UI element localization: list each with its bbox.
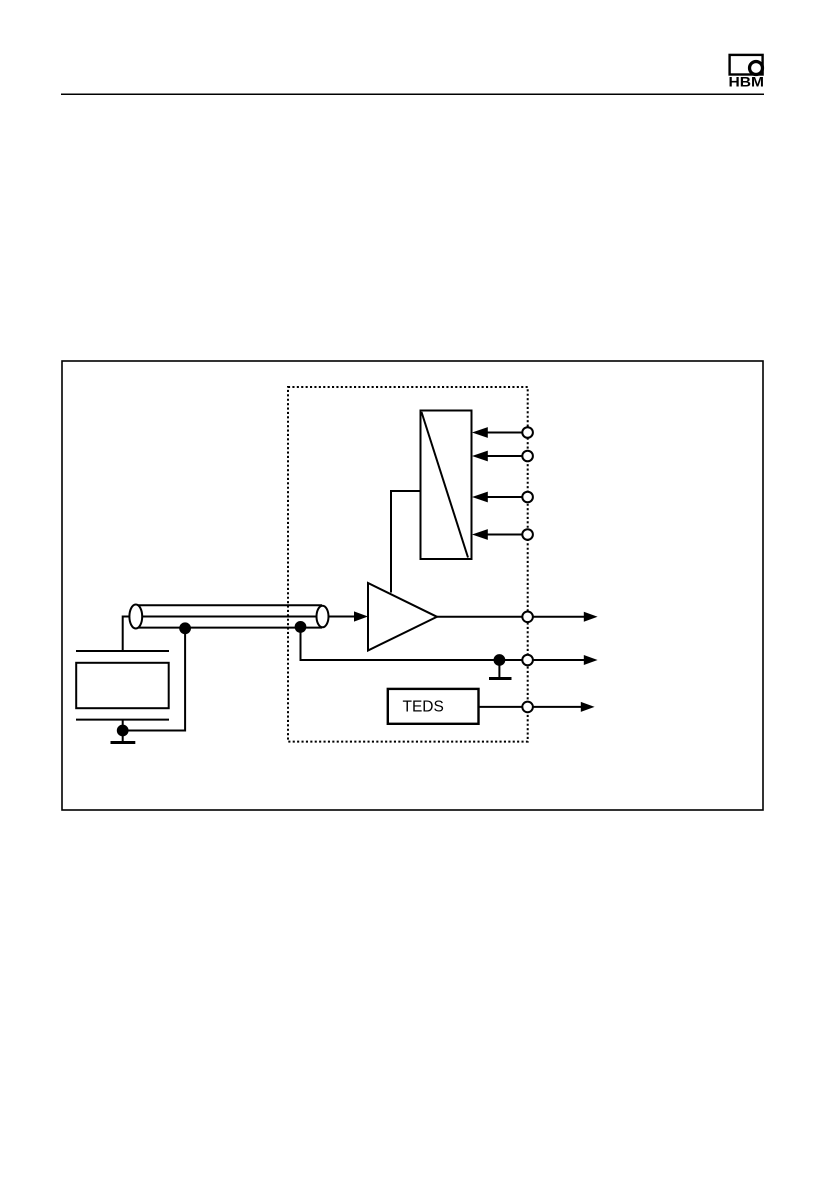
shielded cable (cylinder) [129,605,328,629]
wire: cable shield to amplifier zero line [301,627,523,660]
input arrow into amplifier A1 [329,611,369,621]
junction: shield tap at cable (left) [179,622,191,634]
control input arrow 1 (into U1) [472,427,523,438]
transducer (piezoelectric sensor) [76,651,169,743]
wire: cable core to transducer [123,617,130,652]
TEDS module [388,689,479,724]
connector pin 5 (signal output) [522,612,533,623]
junction: internal ground tap [494,654,506,666]
svg-text:TEDS: TEDS [403,699,444,716]
control input arrow 3 (into U1) [472,492,523,503]
output arrow: zero / shield [533,655,598,665]
connector pin 3 (control) [522,492,533,503]
wire: amplifier output to pin [437,616,522,618]
wire: TEDS to pin [479,706,523,708]
svg-text:HBM: HBM [729,73,765,89]
control input arrow 4 (into U1) [472,529,523,540]
header rule [61,93,764,95]
connector pin 4 (control) [522,529,533,540]
junction: transducer housing node [117,725,129,737]
figure frame [62,361,763,810]
connector pin 2 (control) [522,451,533,462]
wire: U1 left pin to amplifier top [391,491,421,593]
connector pin 7 (TEDS) [522,702,533,713]
output arrow: signal [533,612,598,622]
amplifier enclosure (dashed box) [288,387,528,742]
connector pin 1 (control) [522,427,533,438]
A/D converter U1 (box with diagonal) [421,411,472,560]
wire: cable shield to transducer ground [123,629,185,731]
output arrow: TEDS [533,702,595,712]
control input arrow 2 (into U1) [472,451,523,462]
connector pin 6 (zero / shield) [522,655,533,666]
ground (transducer housing) [111,741,136,744]
junction: shield tap at cable (right) [295,621,307,633]
amplifier A1 (triangle) [368,583,437,651]
HBM logo [729,55,765,90]
ground (amplifier zero) [489,660,512,679]
